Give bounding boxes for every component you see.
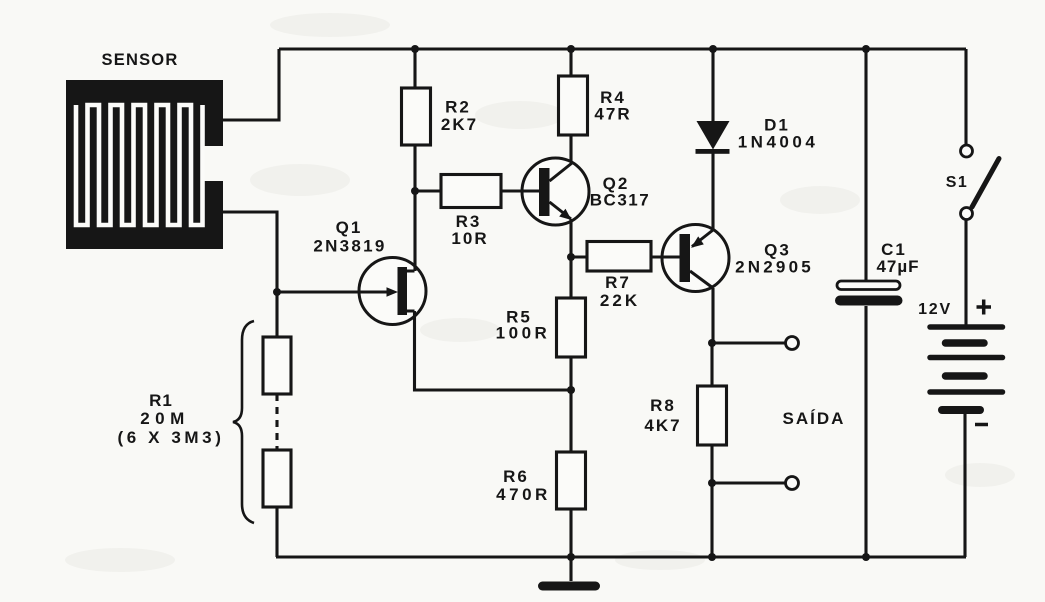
brace R1 <box>233 321 254 523</box>
svg-text:2K7: 2K7 <box>441 115 478 134</box>
label R8 <box>644 396 681 435</box>
resistor R1 upper section <box>263 337 291 394</box>
label R7 <box>600 273 640 310</box>
wire R2 column <box>415 49 572 390</box>
battery plus sign <box>977 300 992 315</box>
sensor body (interdigitated electrodes) <box>66 80 223 249</box>
resistor R3 <box>441 175 501 208</box>
svg-text:470R: 470R <box>496 485 551 504</box>
node junction R6 bottom rail <box>567 553 575 561</box>
svg-text:1N4004: 1N4004 <box>738 133 819 152</box>
node junction C1 top <box>862 45 870 53</box>
svg-text:R2: R2 <box>445 98 471 117</box>
resistor R2 <box>402 88 431 145</box>
svg-text:R7: R7 <box>605 273 631 292</box>
resistor R6 <box>557 452 586 509</box>
wire R7 row <box>571 255 680 258</box>
transistor Q3 2N2905 (PNP) <box>651 225 729 344</box>
svg-text:BC317: BC317 <box>590 191 650 210</box>
wire R4 column <box>569 49 572 163</box>
resistor R1 lower section <box>263 450 291 507</box>
ground <box>569 557 572 581</box>
wire sensor top lead <box>223 49 279 120</box>
node junction R2-R3 <box>411 187 419 195</box>
wire R3 row <box>415 189 539 192</box>
node junction C1 bottom rail <box>862 553 870 561</box>
wire left column to R1 <box>275 292 278 337</box>
svg-text:20M: 20M <box>140 409 190 428</box>
wire output upper <box>712 341 786 344</box>
svg-text:47µF: 47µF <box>876 257 919 276</box>
wire bottom rail <box>276 555 966 558</box>
transistor Q2 BC317 (NPN) <box>501 158 589 257</box>
wire Q1 gate <box>277 290 388 293</box>
wire top supply rail <box>279 47 966 50</box>
node junction output lower <box>708 479 716 487</box>
terminal output lower <box>786 477 799 490</box>
node junction R8 bottom rail <box>708 553 716 561</box>
terminal output upper <box>786 337 799 350</box>
capacitor C1 47uF <box>835 49 903 557</box>
svg-text:100R: 100R <box>496 324 551 343</box>
svg-text:12V: 12V <box>918 301 952 318</box>
svg-text:R6: R6 <box>503 467 529 486</box>
svg-text:R1: R1 <box>149 391 173 410</box>
resistor R5 <box>557 298 586 357</box>
resistor R4 <box>559 76 588 135</box>
node junction output upper <box>708 339 716 347</box>
wire output lower <box>712 481 786 484</box>
transistor Q1 2N3819 (JFET) <box>277 258 426 325</box>
node junction R4 top <box>567 45 575 53</box>
label C1 <box>876 240 919 276</box>
battery 12V <box>930 327 1003 557</box>
label Q3 <box>735 241 814 277</box>
switch S1 <box>961 49 1000 325</box>
svg-text:22K: 22K <box>600 291 640 310</box>
label R6 <box>496 467 551 504</box>
node junction Q2 emitter / R7 <box>567 253 575 261</box>
label R2 <box>441 98 478 135</box>
label R5 <box>496 308 551 343</box>
label R1 value <box>117 391 224 447</box>
node junction Q1 gate <box>273 288 281 296</box>
resistor R8 <box>698 386 727 445</box>
label Q1 <box>313 218 386 256</box>
svg-text:2N2905: 2N2905 <box>735 258 814 277</box>
label R4 <box>594 88 631 124</box>
node junction D1 top <box>709 45 717 53</box>
svg-text:S1: S1 <box>946 174 969 191</box>
label Q2 <box>590 174 650 210</box>
svg-text:R8: R8 <box>650 396 676 415</box>
svg-text:10R: 10R <box>451 229 488 248</box>
svg-text:(6 X 3M3): (6 X 3M3) <box>117 428 224 447</box>
svg-text:4K7: 4K7 <box>644 416 681 435</box>
wire dashed between R1 sections <box>275 394 278 450</box>
wire R6 bottom <box>569 509 572 557</box>
wire R1 bottom to rail <box>275 507 278 557</box>
wire sensor bottom lead <box>223 212 277 292</box>
svg-text:SAÍDA: SAÍDA <box>783 409 846 428</box>
diode D1 1N4004 <box>696 49 730 230</box>
svg-text:2N3819: 2N3819 <box>313 237 386 256</box>
resistor R7 <box>587 242 651 272</box>
label D1 <box>738 116 819 152</box>
svg-text:47R: 47R <box>594 105 631 124</box>
wire R5 column <box>569 257 572 452</box>
node junction R5-R6 / Q1 source <box>567 386 575 394</box>
svg-text:Q1: Q1 <box>336 218 363 237</box>
wire R8 column <box>710 343 713 557</box>
svg-text:SENSOR: SENSOR <box>102 51 179 69</box>
battery minus sign <box>975 423 988 427</box>
node junction R2 top <box>411 45 419 53</box>
label R3 <box>451 212 488 248</box>
